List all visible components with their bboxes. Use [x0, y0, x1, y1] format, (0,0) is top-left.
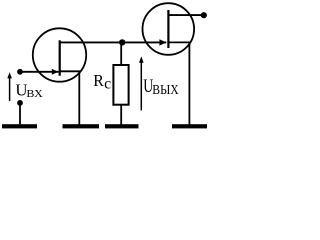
resistor Rc body: [113, 65, 128, 105]
output terminal dot: [201, 12, 207, 18]
svg-text:ВХ: ВХ: [26, 89, 43, 100]
wire lower terminal to ground: [19, 103, 21, 124]
transistor VT2 source lead: [170, 42, 190, 124]
wire VT1 drain to VT2 gate: [59, 41, 166, 43]
svg-text:ВЫХ: ВЫХ: [152, 83, 178, 98]
transistor VT2 channel bar: [167, 10, 169, 48]
svg-text:с: с: [104, 76, 111, 93]
transistor VT1 channel bar: [59, 40, 61, 76]
Uvyx arrowhead: [139, 56, 144, 62]
svg-text:R: R: [93, 71, 104, 90]
ground bar 2: [63, 124, 100, 128]
ground bar 4: [172, 124, 207, 128]
transistor VT1 gate arrowhead: [52, 69, 59, 75]
transistor VT2 gate arrowhead: [159, 39, 166, 45]
Uvx arrow shaft: [9, 77, 11, 101]
transistor VT1 gate wire from input node: [20, 71, 59, 73]
transistor VT2 circle: [143, 3, 195, 55]
resistor Rc lead bottom: [120, 105, 122, 125]
transistor VT2 drain lead: [169, 14, 204, 16]
ground bar 3: [105, 124, 139, 128]
ground bar 1: [2, 124, 37, 128]
resistor Rc lead top: [120, 42, 122, 65]
transistor VT1 source lead: [60, 71, 79, 124]
Uvyx arrow shaft: [140, 62, 142, 111]
node dot: drain/Rc junction: [119, 39, 125, 45]
input terminal dot (top): [17, 69, 23, 75]
transistor VT1 circle: [33, 28, 86, 81]
input lower terminal dot: [17, 100, 23, 106]
Uvx arrowhead: [7, 72, 12, 78]
